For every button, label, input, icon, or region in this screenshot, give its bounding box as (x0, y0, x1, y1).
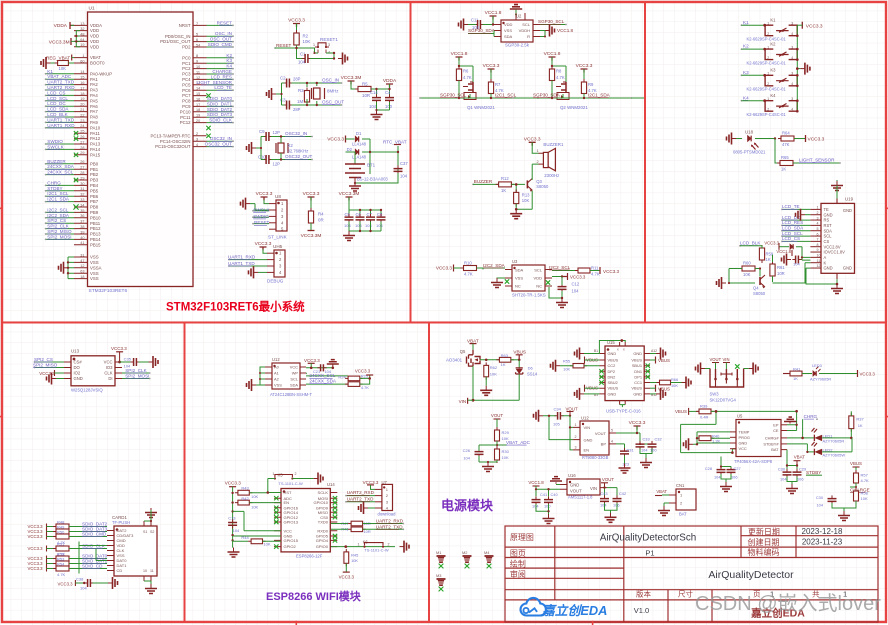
wire VSS bus (68, 257, 74, 279)
svg-text:39: 39 (80, 230, 84, 234)
svg-text:29: 29 (80, 151, 84, 155)
svg-text:SDA: SDA (504, 34, 513, 39)
wire diode to lcd A pin (796, 247, 810, 260)
wire flash vcc node (115, 352, 123, 362)
svg-text:C40: C40 (551, 492, 559, 497)
ground q5 (485, 386, 487, 390)
svg-text:ESP8266-12F: ESP8266-12F (296, 554, 323, 559)
ground sht20 c12 (561, 298, 563, 302)
section divider top vertical 2 (644, 2, 646, 322)
net label I2C2_SCL sht20 (552, 270, 578, 272)
svg-text:100: 100 (650, 448, 657, 453)
svg-text:PD0/OSC_IN: PD0/OSC_IN (165, 34, 191, 39)
svg-text:PB2: PB2 (90, 172, 99, 177)
svg-text:I2C1_SCL: I2C1_SCL (495, 93, 517, 98)
svg-text:VCC3.3: VCC3.3 (570, 275, 586, 280)
svg-text:OSC_OUT: OSC_OUT (322, 100, 344, 105)
svg-text:K3: K3 (770, 68, 776, 73)
ground divider (487, 462, 489, 466)
wire ams vin side (536, 486, 560, 496)
power flag VCC3.3 eeprom pullups (360, 375, 370, 384)
svg-text:4.7K: 4.7K (556, 75, 565, 80)
svg-text:R11: R11 (591, 266, 599, 271)
svg-text:K4: K4 (743, 95, 749, 100)
power flag VCC3.3 out (634, 426, 641, 430)
svg-text:UART2_TXD: UART2_TXD (376, 524, 403, 529)
svg-text:S1: S1 (143, 530, 147, 534)
svg-text:UART2_RXD: UART2_RXD (376, 518, 404, 523)
net label UART2_RXD esp (363, 523, 404, 525)
svg-text:104: 104 (369, 104, 377, 109)
svg-text:18: 18 (80, 92, 84, 96)
svg-text:VOUT: VOUT (602, 477, 615, 482)
diode lcd backlight (779, 246, 789, 248)
ground sht20 vss (497, 277, 505, 280)
svg-text:VDDH: VDDH (519, 28, 530, 33)
svg-text:VCC3.3: VCC3.3 (303, 191, 320, 197)
svg-text:C10: C10 (258, 155, 266, 160)
svg-text:VOUT: VOUT (595, 431, 607, 436)
diode SS14 (518, 360, 520, 368)
svg-text:104: 104 (298, 60, 306, 65)
svg-text:GND: GND (570, 482, 579, 487)
svg-text:28: 28 (80, 146, 84, 150)
svg-text:C26: C26 (463, 448, 471, 453)
net label SWCLK stlink (253, 210, 269, 212)
svg-text:VCC: VCC (290, 365, 298, 370)
svg-text:9: 9 (196, 60, 198, 64)
svg-text:VCC3.3: VCC3.3 (436, 266, 453, 271)
svg-text:PC4: PC4 (182, 77, 191, 82)
svg-text:审阅: 审阅 (510, 569, 526, 579)
wire Q1 drain rail (420, 81, 538, 99)
svg-text:VSS: VSS (90, 260, 99, 265)
resistor R29 (496, 427, 498, 444)
power flag VCC1.8 Q2 (549, 57, 556, 61)
svg-text:LIGHT_SENSOR: LIGHT_SENSOR (197, 80, 233, 85)
svg-text:VDD: VDD (90, 44, 99, 49)
svg-text:LCD_SCL: LCD_SCL (782, 231, 803, 236)
svg-text:VIN: VIN (459, 399, 467, 404)
svg-text:SDA: SDA (824, 228, 833, 233)
power flag VCC3.3 keys (801, 22, 803, 29)
net label UART2_TXD esp (363, 528, 404, 530)
svg-text:104: 104 (793, 262, 800, 267)
svg-text:UART1_RXD: UART1_RXD (228, 254, 256, 259)
svg-text:18: 18 (196, 108, 200, 112)
ground flag sd cap (108, 582, 112, 584)
svg-text:M3: M3 (436, 573, 441, 578)
svg-text:SPI2_CLK: SPI2_CLK (47, 224, 69, 229)
svg-text:PB7: PB7 (90, 199, 99, 204)
svg-text:BOOT0: BOOT0 (90, 61, 105, 66)
svg-text:1: 1 (313, 43, 315, 47)
svg-text:7: 7 (817, 238, 819, 242)
net label SDIO_DAT3 (69, 531, 107, 533)
svg-text:23: 23 (80, 119, 84, 123)
svg-text:VBAT: VBAT (656, 489, 667, 494)
resistor R39 (696, 410, 714, 412)
wire debug vcc (263, 249, 267, 253)
svg-text:54: 54 (196, 43, 200, 47)
svg-text:VDD: VDD (90, 39, 99, 44)
net label SDIO_DAT2 (69, 526, 107, 528)
wire crystal top (292, 83, 342, 87)
svg-text:U18: U18 (745, 130, 754, 135)
svg-text:C38: C38 (76, 577, 84, 582)
wire esp vcc route (233, 511, 281, 536)
power flag VCC3.3 led3 (819, 373, 857, 375)
svg-text:PA11: PA11 (90, 131, 100, 136)
svg-text:VSS: VSS (504, 28, 512, 33)
ground flag usb left top (580, 353, 584, 355)
svg-text:1K: 1K (501, 362, 506, 367)
svg-text:PA0-WKUP: PA0-WKUP (90, 71, 112, 76)
svg-text:SDIO_DAT3: SDIO_DAT3 (207, 112, 233, 117)
svg-text:34: 34 (80, 203, 84, 207)
svg-text:SW3: SW3 (710, 392, 720, 397)
ground flag for BOOT0 (47, 62, 51, 64)
wire vcc1.8 branch Q2 (552, 57, 566, 82)
svg-text:SDIO_DAT0: SDIO_DAT0 (207, 96, 233, 101)
svg-text:PA1: PA1 (90, 77, 98, 82)
svg-text:15: 15 (196, 92, 200, 96)
svg-text:SCL: SCL (522, 22, 531, 27)
svg-text:33: 33 (80, 198, 84, 202)
svg-text:A0: A0 (274, 365, 280, 370)
resistor R62 q5 (485, 362, 487, 379)
svg-text:R5: R5 (362, 82, 368, 87)
svg-text:25: 25 (80, 130, 84, 134)
transistor Q2 WNM2021 (561, 82, 566, 92)
svg-text:SDIO_CLK: SDIO_CLK (209, 118, 233, 123)
svg-text:SDA: SDA (515, 268, 524, 273)
svg-text:CD: CD (117, 568, 123, 573)
svg-text:104: 104 (233, 528, 240, 533)
svg-text:PC15-OSC32OUT: PC15-OSC32OUT (155, 144, 191, 149)
svg-text:VSS: VSS (515, 276, 523, 281)
title block frame (505, 526, 878, 622)
left net labels with wires (45, 69, 76, 241)
svg-text:4.7K: 4.7K (463, 75, 472, 80)
svg-text:PA8: PA8 (90, 115, 98, 120)
no-connect usb right (646, 364, 650, 368)
svg-text:SPI2_MOSI: SPI2_MOSI (125, 373, 149, 378)
svg-text:104: 104 (365, 223, 372, 228)
svg-text:2: 2 (817, 211, 819, 215)
svg-text:10R: 10R (777, 271, 785, 276)
net label LIGHT_SENSOR (793, 162, 840, 164)
svg-text:R2: R2 (303, 34, 309, 39)
wire RESET node (275, 45, 315, 59)
svg-text:K2: K2 (770, 42, 776, 47)
no-connect sht20 left (505, 279, 509, 283)
svg-text:PC1: PC1 (182, 61, 191, 66)
resistor R1 (51, 62, 58, 64)
svg-text:VCC: VCC (104, 360, 113, 365)
svg-text:PD2: PD2 (182, 45, 191, 50)
svg-text:R12: R12 (501, 176, 509, 181)
svg-text:4: 4 (791, 32, 793, 36)
net label UART2_RXD download (347, 495, 375, 497)
section divider top vertical 1 (410, 2, 412, 322)
svg-text:1K: 1K (858, 423, 863, 428)
svg-text:C12: C12 (572, 282, 580, 287)
ground buzzer (515, 209, 517, 213)
wire q4 circuit (729, 246, 773, 283)
svg-text:PA9: PA9 (90, 120, 98, 125)
resistor R13 (515, 189, 517, 206)
ground ams right (610, 513, 612, 517)
wire lcd K pin (773, 263, 811, 283)
svg-text:LCD_CS: LCD_CS (782, 236, 800, 241)
power flag VBUS q5 (511, 359, 519, 361)
ground c31 (624, 464, 626, 468)
svg-text:UART1_TXD: UART1_TXD (228, 261, 255, 266)
svg-text:PA5: PA5 (90, 98, 98, 103)
svg-text:60: 60 (80, 59, 84, 63)
ground flag c34 (539, 415, 543, 417)
svg-text:TF-PUSH: TF-PUSH (112, 520, 130, 525)
wire VCC to R4 (310, 197, 312, 211)
wire ams vout (605, 488, 618, 497)
diode D1 LL4148 (355, 136, 358, 141)
svg-text:C43: C43 (600, 491, 607, 496)
resistor R65 (777, 162, 796, 164)
lcd net labels (781, 204, 810, 242)
svg-text:VCC3.3: VCC3.3 (603, 269, 620, 274)
svg-text:R10: R10 (464, 261, 472, 266)
svg-text:5: 5 (196, 33, 198, 37)
capacitor C31 (616, 444, 625, 451)
svg-text:11: 11 (150, 569, 154, 573)
ground sgp30 top (510, 5, 522, 9)
resistor R3 (306, 88, 308, 106)
svg-text:OSC32_OUT: OSC32_OUT (285, 154, 313, 159)
svg-text:NC: NC (536, 284, 542, 289)
svg-text:VCC: VCC (739, 446, 747, 451)
svg-text:x: x (617, 348, 619, 352)
svg-text:UH5: UH5 (273, 244, 283, 249)
svg-text:P1: P1 (645, 548, 654, 557)
LED2 (787, 444, 814, 452)
wire 32k bottom (271, 153, 312, 160)
svg-text:R66: R66 (671, 377, 678, 382)
svg-text:VBUS: VBUS (631, 386, 642, 391)
svg-text:VDDA: VDDA (383, 78, 397, 84)
svg-text:PB15: PB15 (90, 242, 101, 247)
svg-text:8MHz: 8MHz (327, 89, 338, 94)
resistor R62 lcd (761, 245, 763, 263)
net label SDIO_DAT0 (69, 558, 107, 560)
resistor R2 (296, 30, 298, 48)
svg-text:1K: 1K (781, 167, 786, 172)
ground flag keys (800, 68, 804, 70)
svg-text:PB11: PB11 (90, 221, 101, 226)
svg-text:DEBUG: DEBUG (267, 279, 284, 284)
net label SDIO_CLK (69, 548, 107, 550)
svg-text:100: 100 (385, 104, 393, 109)
svg-text:LED3: LED3 (812, 363, 822, 368)
svg-text:1: 1 (817, 206, 819, 210)
svg-text:0805-PTSMD021: 0805-PTSMD021 (733, 150, 766, 155)
svg-text:PC7: PC7 (182, 93, 191, 98)
svg-text:26: 26 (80, 135, 84, 139)
svg-text:SPI2_CS: SPI2_CS (34, 357, 53, 362)
wire sht20 nc bottom (549, 287, 562, 298)
svg-text:K3: K3 (226, 58, 232, 63)
svg-text:10K: 10K (861, 496, 868, 501)
svg-text:15: 15 (80, 76, 84, 80)
svg-text:1: 1 (767, 72, 769, 76)
svg-text:VBAT: VBAT (467, 338, 479, 343)
svg-text:PC11: PC11 (180, 115, 191, 120)
svg-text:R60: R60 (743, 261, 751, 266)
wire K5 to RST (268, 479, 275, 493)
svg-text:A1: A1 (274, 371, 279, 376)
svg-text:20: 20 (196, 119, 200, 123)
svg-text:VBUS: VBUS (658, 358, 670, 363)
transistor Q1 WNM2021 (468, 82, 473, 92)
svg-text:I2C1_SCL: I2C1_SCL (47, 191, 69, 196)
svg-text:0.4R: 0.4R (700, 415, 709, 420)
svg-text:2: 2 (767, 56, 769, 60)
wire c30 r58 gnd (832, 497, 856, 511)
power flag VCC3.3 debug (260, 247, 267, 251)
svg-text:SS14: SS14 (527, 372, 538, 377)
wire sd vdd clk vertical (79, 542, 107, 574)
svg-text:SHT20-TR-1.5KS: SHT20-TR-1.5KS (512, 293, 546, 298)
wire buzzer base (473, 183, 499, 185)
svg-text:3: 3 (196, 138, 198, 142)
svg-text:K1: K1 (770, 18, 776, 23)
svg-text:K3: K3 (743, 70, 749, 75)
svg-text:10: 10 (817, 254, 821, 258)
svg-text:40: 40 (80, 236, 84, 240)
svg-text:11: 11 (196, 70, 200, 74)
svg-text:DI: DI (108, 376, 112, 381)
svg-text:R9: R9 (588, 82, 594, 87)
svg-text:RESET: RESET (276, 43, 292, 48)
svg-text:28: 28 (80, 171, 84, 175)
svg-text:8: 8 (196, 54, 198, 58)
svg-text:64: 64 (80, 38, 84, 42)
wire keys right bus (796, 25, 798, 111)
svg-text:ST_LINK: ST_LINK (268, 235, 288, 240)
wire I2C1_SDA extension (631, 97, 644, 99)
svg-text:31: 31 (80, 187, 84, 191)
svg-text:PC14-OSC32IN: PC14-OSC32IN (160, 139, 191, 144)
resistor R12 (496, 183, 515, 185)
svg-text:STDBY: STDBY (806, 470, 821, 475)
resistor R63 (496, 359, 513, 361)
wire q5 gate node (480, 359, 499, 361)
svg-text:VBUS: VBUS (608, 386, 619, 391)
svg-text:PB14: PB14 (90, 237, 101, 242)
svg-text:AO3401: AO3401 (446, 357, 463, 362)
capacitor C12 (561, 283, 563, 292)
svg-text:R3: R3 (298, 88, 304, 93)
svg-text:104: 104 (572, 289, 580, 294)
wire R12 to base (511, 184, 525, 192)
svg-text:BP: BP (601, 442, 607, 447)
svg-text:106: 106 (613, 503, 620, 508)
sw3 body (716, 369, 738, 379)
svg-text:3: 3 (791, 97, 793, 101)
resistor R10 (454, 267, 464, 269)
svg-text:PB10: PB10 (90, 215, 101, 220)
svg-text:SWDIO: SWDIO (253, 214, 269, 219)
svg-text:104: 104 (400, 174, 408, 179)
svg-text:PB8: PB8 (90, 205, 99, 210)
svg-text:GND: GND (633, 391, 642, 396)
svg-text:C34: C34 (554, 407, 562, 412)
svg-text:I2C2_SCL: I2C2_SCL (549, 265, 571, 270)
svg-text:图页: 图页 (510, 549, 526, 558)
svg-text:VSS: VSS (90, 276, 99, 281)
svg-text:R62: R62 (490, 365, 498, 370)
ground flag sw3 right (749, 368, 753, 370)
svg-text:16: 16 (196, 97, 200, 101)
svg-text:U12: U12 (581, 416, 589, 421)
svg-text:3: 3 (791, 45, 793, 49)
svg-text:CHRG: CHRG (804, 414, 818, 419)
svg-text:1: 1 (575, 423, 577, 427)
net label I2C2_SDA sht20 (477, 268, 506, 270)
diode D2 LL4148 (355, 149, 358, 154)
svg-text:10K: 10K (522, 198, 530, 203)
svg-text:10K: 10K (251, 494, 258, 499)
wire bat pin down (787, 450, 797, 472)
svg-text:10K: 10K (743, 272, 751, 277)
svg-text:VCC: VCC (284, 528, 293, 533)
svg-text:14: 14 (80, 70, 84, 74)
resistor R Q2 pullup2 (583, 79, 585, 97)
svg-text:DP2: DP2 (608, 369, 616, 374)
svg-text:U13: U13 (71, 349, 80, 354)
svg-text:28P: 28P (293, 77, 301, 82)
battery BT1 (346, 152, 356, 164)
svg-text:LCD_SDA: LCD_SDA (782, 226, 804, 231)
svg-text:C31: C31 (627, 448, 634, 453)
ground crystal filter (376, 110, 378, 114)
svg-text:嘉立创EDA: 嘉立创EDA (541, 603, 607, 618)
svg-text:PROG: PROG (739, 435, 750, 440)
svg-text:PA3: PA3 (90, 88, 98, 93)
wire vin bottom (473, 366, 519, 400)
svg-text:PA6: PA6 (90, 104, 98, 109)
svg-text:PC9: PC9 (182, 104, 191, 109)
net label UART2_TXD download (347, 501, 375, 503)
no-connect marks on unused PA/PB pins (74, 131, 78, 135)
svg-text:DP1: DP1 (634, 374, 642, 379)
power flag VCC3.3M caps (346, 197, 353, 201)
svg-text:SGP30_SDA: SGP30_SDA (533, 93, 561, 98)
svg-text:AZY70605R: AZY70605R (810, 377, 831, 382)
svg-text:R37: R37 (856, 416, 864, 421)
svg-text:BAT: BAT (771, 447, 779, 452)
svg-text:M2: M2 (462, 550, 467, 555)
svg-text:47K: 47K (782, 142, 790, 147)
svg-text:K: K (824, 260, 827, 265)
svg-text:VDD: VDD (534, 276, 543, 281)
svg-text:R50: R50 (57, 529, 65, 534)
svg-text:K2: K2 (743, 44, 749, 49)
section divider bottom vertical 2 (428, 322, 430, 622)
svg-text:GPIO2: GPIO2 (284, 544, 297, 549)
svg-text:32: 32 (80, 27, 84, 31)
power flag VCC3.3 Q2 (581, 69, 588, 73)
